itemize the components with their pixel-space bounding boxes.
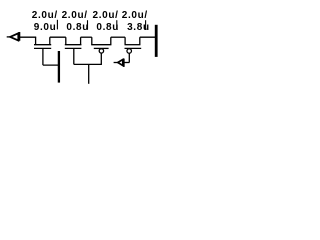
transistor T2 gate bar	[65, 47, 82, 49]
transistor T2 source riser	[65, 37, 67, 45]
tick right of second 0.8u label	[116, 20, 118, 29]
tick right of first 0.8u label	[87, 20, 89, 29]
wire main net segment 3	[81, 36, 92, 38]
output port arrow base bar	[123, 59, 125, 67]
wire main net segment 5	[140, 36, 157, 38]
svg-text:0.8u: 0.8u	[66, 22, 89, 33]
input port arrow head	[10, 33, 18, 40]
input port arrow tail	[7, 36, 11, 38]
transistor T2 gate stub	[73, 48, 75, 64]
transistor T3 drain riser	[110, 37, 112, 45]
transistor T1 gate bar	[34, 47, 51, 49]
transistor T1 source riser	[35, 37, 37, 45]
wire end thick bar right	[155, 25, 158, 57]
transistor T2 drain riser	[80, 37, 82, 45]
svg-text:3.8u: 3.8u	[127, 22, 150, 33]
output port arrow head	[118, 60, 123, 66]
transistor T4 gate bubble	[127, 49, 132, 54]
input port arrow base bar	[18, 32, 20, 41]
output port arrow tail left	[114, 62, 118, 64]
transistor T4 source riser	[124, 37, 126, 45]
wire thick vertical stub mid	[58, 51, 60, 83]
output port arrow tail right	[125, 62, 130, 64]
wire main net segment 2	[50, 36, 66, 38]
transistor T4 drain riser	[139, 37, 141, 45]
transistor T1 channel bar	[34, 44, 51, 46]
svg-text:2.0u/: 2.0u/	[122, 10, 148, 21]
tick right of 3.8u label	[145, 20, 147, 29]
transistor T1 gate stub	[42, 48, 44, 65]
transistor T3 gate bubble	[99, 49, 103, 53]
transistor T3 gate stub	[100, 53, 102, 65]
transistor T3 gate bar	[94, 47, 109, 49]
wire vertical below H2	[88, 64, 90, 83]
transistor T4 gate stub	[128, 53, 130, 62]
wire T2 T3 gate horizontal	[74, 63, 102, 65]
svg-text:9.0u: 9.0u	[34, 22, 57, 33]
transistor T4 gate bar	[125, 47, 142, 49]
svg-text:2.0u/: 2.0u/	[32, 10, 58, 21]
tick right of 9.0u label	[56, 20, 58, 30]
svg-text:2.0u/: 2.0u/	[93, 10, 119, 21]
svg-text:2.0u/: 2.0u/	[62, 10, 88, 21]
transistor T1 drain riser	[49, 37, 51, 45]
svg-text:0.8u: 0.8u	[96, 22, 119, 33]
transistor T2 channel bar	[65, 44, 82, 46]
transistor T4 channel bar	[125, 44, 141, 46]
wire T1 gate horizontal	[43, 64, 59, 66]
wire main net segment 1	[20, 36, 36, 38]
wire main net segment 4	[111, 36, 125, 38]
transistor T3 channel bar	[91, 44, 111, 46]
transistor T3 source riser	[91, 37, 93, 45]
